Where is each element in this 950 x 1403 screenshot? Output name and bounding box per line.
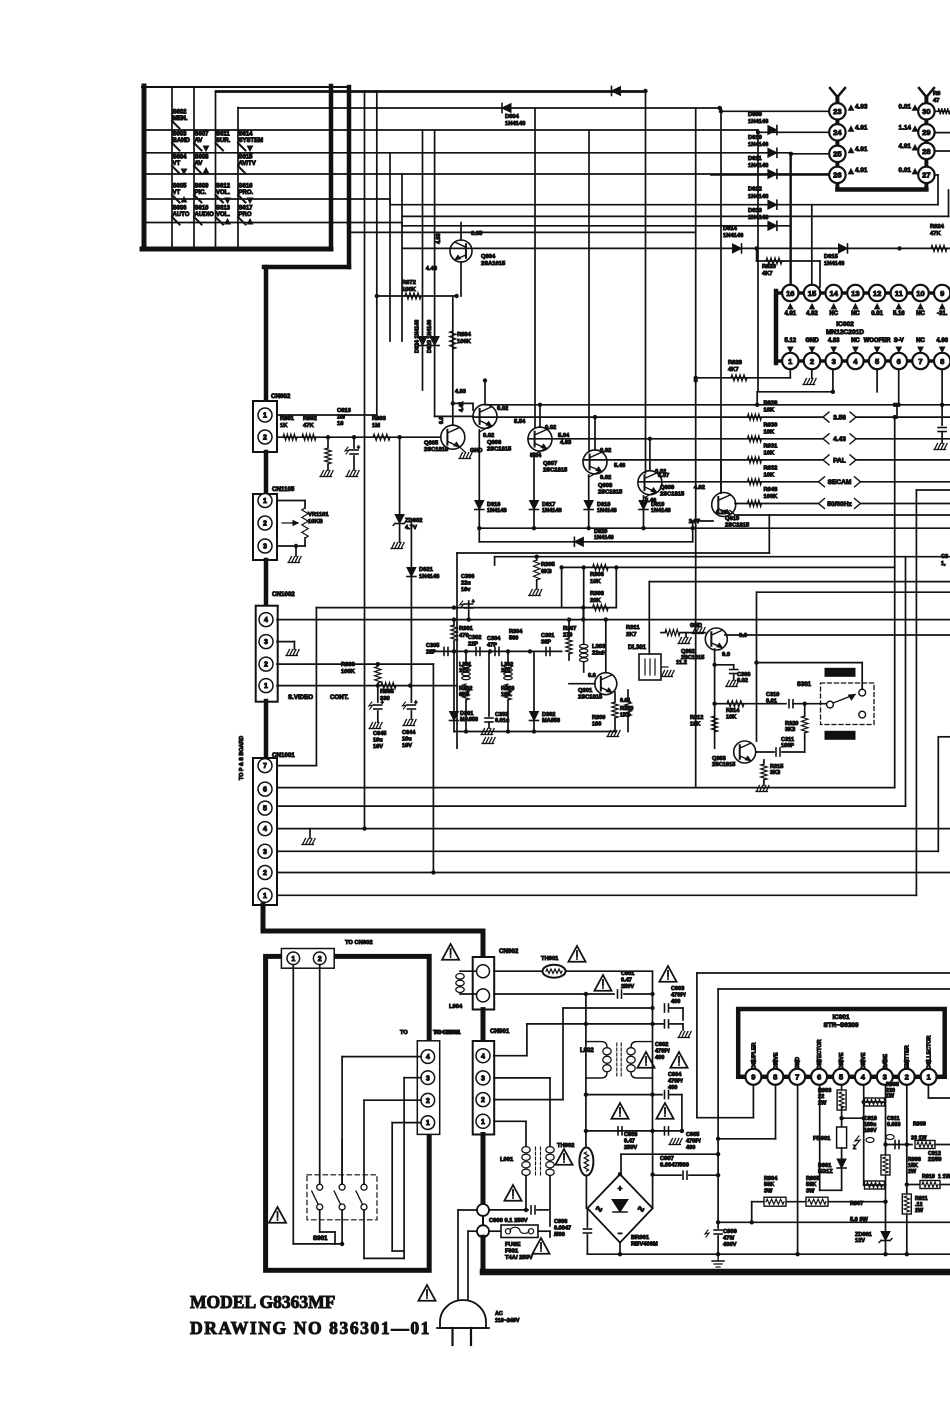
capacitor C902 label [655,1042,670,1061]
wire B+ rail [716,989,950,1228]
svg-text:22P: 22P [426,649,436,655]
wire BR901 plus [618,1154,718,1176]
svg-text:13: 13 [851,289,859,298]
connector CN1001 [253,752,295,905]
svg-text:1N4148: 1N4148 [419,574,440,580]
svg-text:C645: C645 [373,731,386,737]
svg-text:10u: 10u [373,737,383,743]
resistor R684 [450,331,472,349]
svg-text:R307: R307 [563,626,576,632]
svg-text:Q606: Q606 [487,440,502,446]
svg-text:1N4148: 1N4148 [748,215,769,221]
svg-text:+: + [357,445,360,451]
matrix row wire 1 [146,129,758,131]
wire C904 down [680,1095,684,1134]
svg-text:C302: C302 [468,635,481,641]
svg-text:D618: D618 [597,502,610,508]
svg-text:C905: C905 [686,1132,699,1138]
svg-text:1: 1 [291,956,295,963]
wire IC901 pin9 [752,1085,754,1118]
connector CN1002 [256,591,296,702]
svg-text:1: 1 [481,1119,485,1126]
svg-text:CN602: CN602 [271,393,291,400]
svg-text:2SC1815: 2SC1815 [681,655,704,661]
svg-text:0.0047/500: 0.0047/500 [660,1163,689,1169]
svg-text:30: 30 [922,107,930,116]
svg-text:R305: R305 [541,562,556,568]
switch S606 AUTO [172,206,190,225]
wire CN901 pin3 [494,1078,550,1146]
svg-text:5.46: 5.46 [614,463,626,469]
Q606 base wire [435,401,473,416]
bus wire A [364,91,366,829]
warning triangle 2 [568,946,585,962]
svg-text:4.91: 4.91 [855,146,868,153]
svg-text:2SC1815: 2SC1815 [487,447,512,453]
svg-text:+: + [414,700,417,706]
wire Q605 collector [452,296,454,425]
svg-text:1K8: 1K8 [620,712,630,718]
transistor Q606 [473,404,512,452]
svg-text:GND: GND [690,623,702,629]
Q609 emitter [644,492,658,504]
inductor L301 [459,651,471,679]
svg-text:16: 16 [786,289,794,298]
analog box outline [457,515,769,748]
svg-text:S605: S605 [173,184,188,190]
svg-text:50/60Hz: 50/60Hz [827,501,852,508]
wire C908 row [586,1130,682,1132]
diode D603 [612,87,621,96]
svg-text:3K3: 3K3 [785,727,795,733]
svg-text:0.02: 0.02 [497,406,508,412]
svg-text:R304: R304 [509,629,523,635]
bus wire L [422,130,424,390]
ferrite bead FB901 [813,1127,847,1159]
svg-text:C311: C311 [781,737,794,743]
svg-text:DL301: DL301 [628,645,647,651]
svg-text:3: 3 [263,849,267,856]
svg-text:12V: 12V [855,1238,865,1244]
svg-text:47P: 47P [487,642,497,648]
svg-text:R648: R648 [764,487,779,493]
svg-text:10: 10 [916,289,924,298]
transistor Q609 [638,471,685,498]
svg-text:R692: R692 [303,416,317,422]
svg-text:C303: C303 [495,712,508,718]
inductor L303 [580,565,607,679]
svg-text:TH902: TH902 [557,1143,574,1149]
transistor Q610 [712,493,750,529]
IC pin 24 [758,124,868,140]
switch S301 [797,682,874,725]
switch S605 VT [172,184,187,203]
svg-text:AV/TV: AV/TV [239,161,256,167]
svg-text:470P/: 470P/ [655,1048,670,1054]
IC602 bottom pins 1-8 [782,353,950,369]
capacitor C303 [481,651,510,734]
svg-text:0.01: 0.01 [871,311,883,317]
resistor R911 [902,1194,927,1214]
svg-text:R6: R6 [933,91,941,97]
svg-text:10u: 10u [402,736,412,742]
wire S301 upper contact [754,660,862,689]
diode D612 [748,187,777,210]
svg-text:DRAWING NO 836301—01: DRAWING NO 836301—01 [190,1318,431,1338]
diode D620 [574,529,613,546]
warning triangle 8 [656,1103,673,1119]
svg-text:S617: S617 [239,206,254,212]
svg-text:ZD901: ZD901 [855,1232,872,1238]
label TO P and S BOARD [239,736,245,780]
wire coupler riser [697,973,950,1118]
svg-text:4.93: 4.93 [855,103,868,110]
svg-text:+: + [381,700,384,706]
switch S608 AV [194,155,209,174]
IC pin column right bus [919,88,934,186]
svg-text:1N4146: 1N4146 [748,119,769,125]
label MODEL [190,1292,335,1312]
wire CN1001 pin7 [277,608,316,766]
wire sw2 top [341,1140,343,1184]
svg-text:10K: 10K [764,472,775,478]
top wire with diode [216,90,646,92]
switch S617 PRO [238,206,253,225]
svg-text:250V: 250V [621,984,634,990]
diode D614 [723,226,744,253]
svg-text:3K3: 3K3 [770,770,780,776]
svg-text:F901: F901 [505,1249,519,1255]
wire row 567 [559,565,894,569]
IC901 pins 9-1 [745,1069,936,1085]
label S.VIDEO CONT [288,694,349,701]
wire R672 row [375,294,459,298]
thick bus to CN902 [481,931,486,958]
svg-text:Q607: Q607 [543,461,557,467]
svg-text:470P/: 470P/ [671,992,686,998]
svg-text:C306: C306 [461,574,474,580]
svg-text:NORMAL: NORMAL [827,734,853,740]
switch S607 AV [194,132,209,152]
svg-text:2W: 2W [818,1100,827,1106]
resistor R692b [320,437,333,476]
wire sw1 bottom [320,1210,335,1244]
svg-text:S616: S616 [239,184,254,190]
svg-text:4: 4 [264,617,268,624]
svg-text:2SA1015: 2SA1015 [481,261,506,267]
svg-text:9: 9 [751,1073,755,1082]
svg-text:CN1002: CN1002 [272,591,295,598]
resistor R306 [590,564,608,585]
svg-text:AUDIO: AUDIO [195,212,215,218]
svg-text:R320: R320 [785,721,798,727]
capacitor C908 [618,1127,637,1151]
resistor R909 [911,1122,950,1149]
Q610 collector [694,460,721,493]
svg-text:2W: 2W [915,1208,924,1214]
svg-text:D612: D612 [748,187,762,193]
diode D613 [748,208,777,231]
resistor R320 [785,704,808,737]
svg-text:EMITTER: EMITTER [905,1045,911,1069]
IC901 body [738,1009,945,1077]
svg-text:R310: R310 [620,706,633,712]
svg-text:2W: 2W [908,1169,917,1175]
svg-text:0.01: 0.01 [620,698,631,704]
wire BR901 bottom [618,1243,622,1257]
wire CN1001 pin3 [277,737,950,852]
svg-text:R903: R903 [818,1088,831,1094]
svg-text:S301: S301 [797,682,812,688]
warning triangle 5 [637,1052,654,1068]
svg-text:9: 9 [940,289,944,298]
wire CN1001 pin5 [277,557,906,806]
svg-text:GND: GND [470,448,482,454]
svg-text:SECAM: SECAM [828,479,852,486]
diode D609 [748,112,777,135]
svg-text:C310: C310 [766,692,779,698]
svg-text:0.02: 0.02 [545,425,556,431]
signal row 4.43 [528,422,950,444]
svg-text:10/: 10/ [337,414,345,420]
Q609 collector [648,437,670,479]
svg-text:5.12: 5.12 [784,338,796,344]
transistor Q303 [712,741,756,768]
svg-text:VT: VT [173,190,181,196]
resistor R308 [590,591,608,611]
warning triangle box [269,1207,286,1223]
svg-text:D604: D604 [505,114,520,120]
IC pin 27 wire [935,175,938,205]
connector CN602 [253,393,291,452]
svg-text:16V: 16V [373,744,383,750]
capacitor C905 [665,1127,702,1151]
svg-text:D301: D301 [460,711,473,717]
svg-text:16v: 16v [461,587,471,593]
switch S901 pole 3 [356,1184,367,1210]
svg-text:TH901: TH901 [541,956,559,962]
Q607 emitter [534,440,572,501]
svg-text:4.91: 4.91 [784,311,796,317]
svg-text:22/50: 22/50 [928,1157,942,1163]
svg-text:4K7: 4K7 [728,367,739,373]
IC602 body bracket [776,291,950,363]
svg-text:1: 1 [264,683,268,690]
svg-text:S604: S604 [173,155,188,161]
svg-text:R309: R309 [592,715,605,721]
resistor R307 [563,617,576,660]
svg-text:27: 27 [922,171,930,180]
signal row 3.58 [473,401,950,423]
svg-text:3W: 3W [764,1188,773,1194]
svg-text:PIC.: PIC. [195,190,207,196]
zener ZD901 [855,1232,892,1245]
svg-text:3: 3 [481,1076,485,1083]
svg-text:C903: C903 [671,986,684,992]
svg-text:S609: S609 [195,184,210,190]
IC602 top pin values [784,304,947,317]
svg-text:D623 1N4146: D623 1N4146 [427,320,433,353]
Q606 collector [483,378,508,412]
svg-text:R314: R314 [726,708,740,714]
warning triangle 10 [504,1185,521,1201]
resistor R903 [818,1088,846,1127]
svg-text:D620: D620 [594,529,607,535]
svg-text:D619: D619 [651,502,664,508]
svg-text:S.VIDEO: S.VIDEO [288,694,313,701]
AC plug [437,1300,489,1345]
wire IC901 pin5 chain [839,1085,863,1120]
svg-text:EG1Z: EG1Z [818,1169,833,1175]
IC pin 27 [899,167,935,183]
resistor R309 [592,692,620,737]
resistor R686 [341,662,381,683]
transistor Q605 [424,425,465,453]
svg-text:D302: D302 [542,712,555,718]
svg-text:R312: R312 [690,715,703,721]
capacitor C909 [705,1229,738,1267]
svg-text:2SC1815: 2SC1815 [598,490,623,496]
wire CN602 pin2 base line [277,435,441,439]
diode D621 [407,520,440,686]
resistor R301 [451,617,474,651]
wire CN902 pin1 [494,970,543,972]
svg-text:S901: S901 [313,1235,328,1242]
svg-text:D613: D613 [748,208,763,214]
svg-text:RBV406M: RBV406M [631,1242,658,1248]
svg-text:4.92: 4.92 [694,485,705,491]
svg-text:16: 16 [337,421,344,427]
switch S602 MEN. [172,110,188,129]
svg-text:2: 2 [318,956,322,963]
svg-text:1N4148: 1N4148 [505,121,526,127]
thick bus CN1001 to power [263,905,483,946]
capacitor C307r [895,403,899,418]
wire C904 row [586,1094,662,1096]
wire R910 row [905,1182,920,1186]
svg-text:Q608: Q608 [598,483,613,489]
svg-text:D901: D901 [818,1163,831,1169]
svg-text:0.47: 0.47 [624,1138,635,1144]
svg-text:400: 400 [668,1085,677,1091]
capacitor C911 [886,1116,901,1140]
svg-text:S608: S608 [195,155,210,161]
svg-text:VOL.: VOL. [216,190,230,196]
svg-text:L904: L904 [449,1004,463,1010]
svg-text:4.83: 4.83 [828,338,840,344]
matrix row wire 5 [146,223,790,226]
svg-text:2: 2 [481,1097,485,1104]
svg-text:R623: R623 [762,264,777,270]
svg-text:R691: R691 [280,416,295,422]
svg-text:C308: C308 [737,672,750,678]
svg-text:ZD602: ZD602 [405,518,422,524]
svg-text:AV: AV [195,138,203,144]
wire D615 row [402,246,950,250]
delay line DL301 [628,582,950,680]
svg-text:2SC1815: 2SC1815 [543,468,568,474]
svg-text:1 1W: 1 1W [938,1174,950,1180]
svg-text:D624 1N4146: D624 1N4146 [415,320,421,353]
IC602 label [826,321,864,336]
bridge rectifier BR901 [587,1174,658,1247]
svg-text:R306: R306 [590,572,605,578]
svg-text:3: 3 [426,1075,430,1082]
svg-text:0.02: 0.02 [483,433,494,439]
svg-text:R302: R302 [459,686,472,692]
Q608 emitter [589,463,626,501]
svg-text:56K: 56K [764,1182,774,1188]
resistor R624 [930,224,947,252]
diode D611 [748,156,777,179]
svg-text:R629: R629 [764,401,779,407]
svg-text:470P/: 470P/ [686,1138,701,1144]
svg-text:0.02: 0.02 [600,475,611,481]
wire sw3 bottom [364,1210,404,1258]
capacitor C306 [460,574,475,622]
svg-text:22: 22 [818,1094,824,1100]
svg-text:D616: D616 [487,502,500,508]
svg-text:Q301: Q301 [578,688,593,694]
svg-text:3: 3 [264,639,268,646]
thermistor TH902 [557,1143,593,1208]
matrix column line 3 [216,92,646,246]
svg-text:4K7: 4K7 [762,271,773,277]
svg-text:10KB: 10KB [308,519,323,525]
Q610 base wire [689,519,713,525]
svg-text:100K: 100K [764,494,779,500]
svg-text:R686: R686 [341,662,356,668]
svg-text:R684: R684 [457,332,472,338]
matrix row wire 4 [146,199,938,205]
svg-text:-31.: -31. [937,311,948,317]
matrix column line 1 [171,87,173,246]
svg-text:470P/: 470P/ [668,1078,683,1084]
svg-text:R301: R301 [459,626,474,632]
wire pin4 link [342,1057,421,1184]
svg-text:2: 2 [905,1073,909,1082]
svg-text:R315: R315 [770,764,783,770]
svg-text:2: 2 [426,1098,430,1105]
svg-text:R685: R685 [380,689,395,695]
svg-text:0.0: 0.0 [739,633,747,639]
IC pin 23 [721,103,868,119]
capacitor C901 [618,971,655,998]
svg-text:1N4148: 1N4148 [487,508,507,514]
svg-text:4: 4 [263,826,267,833]
svg-text:−: − [618,1229,623,1238]
switch S614 SYSTEM [238,132,263,152]
signal row 50/60Hz [735,487,950,509]
svg-text:AUTO: AUTO [173,212,190,218]
svg-text:4.43: 4.43 [833,436,846,443]
svg-text:20K: 20K [590,598,601,604]
warning triangle 4 [659,966,676,982]
wire sw2 bottom [340,1210,344,1246]
svg-text:C907: C907 [660,1156,674,1162]
connector to CN602 [281,949,334,969]
inductor L302 [501,651,513,679]
wire CN1002 pin1 [277,683,457,687]
potentiometer VR1101 [277,501,329,563]
svg-text:7: 7 [918,357,922,366]
svg-text:BAND: BAND [173,138,191,144]
switch S612 VOL. [216,184,231,204]
wire IC901 pin1 [928,1085,950,1098]
switch S901 [307,1175,377,1242]
svg-text:0.6: 0.6 [588,673,596,679]
diode D619 [639,501,671,529]
